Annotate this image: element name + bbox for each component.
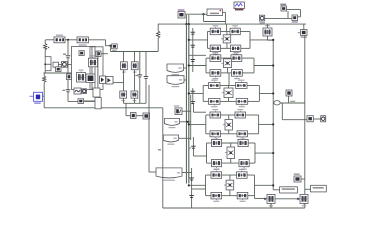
cell3 right vertical wire bbox=[258, 86, 260, 102]
output wire to far bus bbox=[273, 102, 305, 104]
wire G3 to SB1 bbox=[84, 100, 100, 102]
subsystem box T1 bbox=[72, 47, 96, 90]
wire mini block stub bbox=[101, 53, 108, 55]
current measure oval on bus bbox=[274, 101, 280, 105]
cell6 right vertical wire bbox=[254, 175, 256, 196]
source branch vertical wire upper bbox=[44, 40, 46, 44]
igbt Q53 bbox=[211, 160, 221, 170]
cell5 top row wire bbox=[207, 142, 212, 144]
cell4 right vertical wire bbox=[258, 115, 260, 134]
dc link wire group3 bbox=[191, 168, 193, 208]
cell2 left vertical wire bbox=[205, 58, 207, 73]
battery B5 plates bbox=[191, 146, 196, 148]
cell5 battery feed wire bbox=[192, 137, 194, 156]
igbt Q22 bbox=[231, 52, 242, 62]
feedback wire FB1 to FB2 bbox=[136, 115, 143, 117]
gain block G3 bbox=[78, 99, 84, 104]
product block P2 bbox=[77, 37, 88, 46]
cell2 top row wire bbox=[206, 57, 210, 59]
current measurement block CM1 (blue) bbox=[30, 92, 43, 104]
cell2 center source vertical bbox=[227, 57, 229, 60]
battery B1d plates bbox=[191, 60, 196, 62]
wire far bus to display WR1 bbox=[305, 188, 311, 190]
wire P1 to P2 bbox=[65, 39, 77, 41]
cell1 right tap wire bbox=[250, 39, 273, 41]
cell3 left tap wire bbox=[189, 92, 203, 94]
plus label C3a bbox=[135, 75, 137, 76]
igbt Q32 bbox=[236, 80, 248, 89]
display box B1 bbox=[207, 9, 223, 16]
feedback wire from rectifier bbox=[125, 103, 127, 115]
subsystem box T2 bbox=[90, 47, 103, 90]
wire QB1 to QB2 bbox=[275, 198, 300, 200]
dc source V4 bbox=[223, 120, 233, 131]
display block DS4 bbox=[163, 135, 178, 145]
igbt Q64 bbox=[237, 192, 248, 202]
igbt Q61 bbox=[211, 169, 222, 179]
wire TB5 right loop bbox=[287, 9, 301, 11]
outer right bus vertical bbox=[272, 40, 274, 190]
extra tap wire cell2 top bbox=[189, 54, 206, 56]
cell1 left tap wire bbox=[189, 39, 208, 41]
leg2 bottom wire bbox=[134, 98, 136, 103]
small block EX1 bbox=[67, 74, 72, 80]
cell4 right tap wire bbox=[259, 123, 274, 125]
wire B1 to bus bbox=[223, 11, 226, 13]
igbt Q63 bbox=[211, 192, 222, 202]
gain block G1 bbox=[112, 44, 118, 51]
display block DS5 bbox=[156, 168, 182, 181]
igbt Q44 bbox=[237, 131, 248, 140]
igbt Q12 bbox=[230, 25, 240, 35]
gate bus vertical A bbox=[185, 24, 187, 183]
igbt Q14 bbox=[231, 45, 241, 55]
white box SB2 below subsystem bbox=[95, 98, 101, 109]
sum block TB2 bbox=[260, 15, 265, 23]
dc link wire group1 bbox=[192, 28, 194, 72]
wire outer bus into display LB_a bbox=[273, 189, 279, 191]
leg1 mid wire bbox=[123, 70, 125, 91]
product block P1 (+ x -) bbox=[54, 35, 65, 43]
capacitor C2 plates bbox=[66, 90, 71, 92]
battery group2 corner to cell4 bbox=[193, 104, 195, 112]
wire bus to TB4 bbox=[303, 24, 305, 29]
QB1 bottom stub bbox=[270, 203, 272, 208]
diode D4 bbox=[131, 91, 138, 101]
feedback block FB1 bbox=[131, 113, 137, 119]
node junction at capacitor branch bbox=[67, 39, 69, 41]
cell4 center source vertical bbox=[228, 115, 230, 120]
cell6 left tap wire bbox=[189, 184, 206, 186]
capacitor C1 lower wire bbox=[67, 58, 69, 90]
diode block D_a bbox=[100, 76, 106, 84]
cell4 left tap wire bbox=[189, 123, 206, 125]
meter block M1 bbox=[307, 116, 313, 122]
diode block D_b bbox=[106, 77, 113, 85]
label dot near R1 bbox=[48, 47, 49, 48]
cell1 center source vertical bbox=[226, 31, 228, 34]
rectifier leg 1 upper wire bbox=[123, 52, 125, 62]
cell6 right tap wire bbox=[255, 184, 274, 186]
wire AC midpoint to rectifier bbox=[113, 82, 124, 84]
cell5 left vertical wire bbox=[206, 143, 208, 163]
display block DS2 bbox=[167, 76, 184, 88]
leg2 mid wire bbox=[134, 70, 136, 91]
display box LB_a bbox=[280, 187, 298, 193]
display block DS3 bbox=[164, 119, 179, 129]
igbt Q42 bbox=[235, 109, 246, 118]
wire bend down to gain G1 bbox=[105, 40, 107, 46]
wire DS1 to gate bus bbox=[184, 67, 187, 69]
scope block B2 with waveform bbox=[234, 2, 244, 10]
igbt Q23 bbox=[210, 70, 221, 80]
wire bus down to cell1 top bbox=[226, 24, 228, 31]
feedback block FB2 bbox=[143, 113, 150, 119]
cell6 bottom row wire bbox=[206, 195, 212, 197]
leg1 bottom wire bbox=[123, 98, 125, 103]
igbt Q43 bbox=[210, 131, 221, 140]
wire CM1 to return bus bbox=[43, 95, 45, 97]
main bus feed corner bbox=[157, 24, 159, 31]
display block DS1 bbox=[167, 64, 184, 75]
circle block V2 bbox=[82, 89, 87, 94]
wire down to rectifier rail bbox=[110, 46, 112, 52]
cell2 left tap wire bbox=[189, 65, 206, 67]
label on output wire bbox=[290, 101, 295, 102]
junction dots top bus bbox=[185, 23, 187, 25]
dc source V3 bbox=[222, 88, 233, 98]
wire M1 to M2 bbox=[313, 118, 320, 120]
cell1 left vertical wire bbox=[207, 31, 209, 48]
cell2 right vertical wire bbox=[253, 58, 255, 73]
left gate bus wire B bbox=[188, 15, 190, 184]
tiny label near DS4 bbox=[158, 149, 161, 150]
wire DS4 to gate bus bbox=[179, 137, 191, 139]
igbt Q54 bbox=[239, 160, 249, 170]
igbt Q24 bbox=[232, 70, 243, 80]
cell3 top row wire bbox=[203, 85, 208, 87]
wire RS1 stub bbox=[288, 96, 290, 103]
wire TM1 to V1 bbox=[58, 64, 61, 66]
dc source V5 bbox=[225, 147, 235, 159]
cell2 right tap wire bbox=[254, 65, 273, 67]
igbt Q_b bbox=[77, 70, 86, 83]
rectifier top rail bbox=[111, 51, 159, 53]
wire P2 output rightward bbox=[88, 39, 105, 41]
wire DS5 to battery line bbox=[182, 172, 192, 174]
inter-cell wire cell2 to cell3 bbox=[228, 73, 230, 86]
cell1 bottom row wire bbox=[208, 47, 211, 49]
battery B2a plates bbox=[191, 102, 196, 104]
cell3 right tap wire bbox=[259, 92, 273, 94]
igbt Q62 bbox=[237, 169, 248, 179]
cell5 right tap wire bbox=[255, 152, 273, 154]
igbt Q11 bbox=[210, 25, 220, 35]
battery B3b plates bbox=[189, 196, 194, 198]
series branch box B_rlc2 bbox=[45, 64, 51, 70]
far right vertical bus bbox=[304, 36, 306, 209]
dc mid tap wire group3 bbox=[192, 188, 206, 190]
left gate bus wire A bbox=[185, 15, 187, 184]
wire TB5 down bbox=[287, 11, 289, 18]
igbt Q13 bbox=[210, 45, 220, 55]
wire TB2 to TB3 bbox=[265, 17, 292, 19]
TB4 left tick bbox=[298, 32, 300, 33]
wire DB to far bus bbox=[301, 178, 305, 180]
cell4 top row wire bbox=[206, 114, 210, 116]
junction dot DS3 wire bbox=[186, 121, 188, 123]
terminal block TM1 bbox=[53, 62, 58, 67]
top horizontal bus bbox=[158, 23, 306, 25]
cell5 right vertical wire bbox=[254, 143, 256, 163]
dc source V1 bbox=[221, 35, 231, 43]
junction dot at branch boxes bbox=[44, 63, 46, 65]
plus label B5 bbox=[189, 147, 191, 148]
wire R3 to rectifier rail bbox=[157, 38, 159, 52]
resistor R1 zigzag bbox=[44, 44, 47, 50]
inner vertical wire W_t1 bbox=[91, 47, 93, 90]
diode D1 bbox=[121, 62, 128, 73]
wire input to product block bbox=[46, 39, 55, 41]
dc link capacitor wire B upper bbox=[145, 52, 147, 77]
subsystem small box SB1 bbox=[93, 88, 100, 97]
gain block G2 bbox=[56, 67, 62, 72]
dc link capacitor wire A upper bbox=[139, 52, 141, 75]
voltage source circle V1 bbox=[62, 62, 68, 68]
cell4 bottom row wire bbox=[206, 133, 210, 135]
cell1 right vertical wire bbox=[249, 31, 251, 48]
cell6 center source vertical bbox=[229, 175, 231, 180]
gate bus vertical B bbox=[188, 24, 190, 183]
wire down to meter blocks bbox=[281, 103, 283, 120]
dc link capacitor wire A lower bbox=[139, 78, 141, 104]
dc source V2 bbox=[221, 59, 231, 68]
dc link capacitor wire B lower bbox=[145, 79, 147, 103]
series branch box B_rlc1 bbox=[45, 57, 51, 65]
wire bus into QS1 bbox=[267, 24, 269, 28]
resistor R3 zigzag bbox=[157, 31, 160, 38]
igbt QB2 bbox=[300, 194, 308, 206]
block PB2 bbox=[74, 88, 81, 94]
third gate bus vertical segment bbox=[190, 95, 192, 140]
capacitor C3b bbox=[144, 77, 149, 79]
cell6 top row wire bbox=[206, 174, 212, 176]
display box WR1 bbox=[311, 185, 327, 192]
capacitor C1 plates bbox=[66, 56, 71, 58]
wire DS2 to gate bus bbox=[184, 79, 186, 81]
battery B1a plates bbox=[191, 32, 196, 34]
cell4 left vertical wire bbox=[205, 115, 207, 134]
junction dot on TB1 wire bbox=[202, 13, 204, 15]
battery B3a plates bbox=[189, 178, 194, 180]
scope mini block SC2 bbox=[79, 51, 84, 56]
pwm generator block PWM1 bbox=[174, 105, 182, 114]
corner wire to switch QB1 bbox=[254, 196, 256, 199]
igbt Q51 bbox=[211, 136, 221, 146]
plus label C1 bbox=[63, 54, 66, 55]
cell3 center source vertical bbox=[228, 86, 230, 89]
sensor block RS1 bbox=[286, 90, 292, 96]
wire R2 down to current measure bbox=[43, 82, 45, 96]
igbt Q21 bbox=[210, 52, 221, 62]
cell5 bottom row wire bbox=[207, 162, 212, 164]
wire loop below B1 bbox=[203, 14, 205, 21]
igbt Q41 bbox=[210, 109, 221, 118]
dc source V6 bbox=[224, 180, 234, 190]
measurement block TB4 bbox=[301, 30, 308, 38]
wire QS1 to right bus bbox=[267, 36, 269, 40]
igbt Q31 bbox=[209, 80, 221, 89]
return bus wire to load box bbox=[44, 107, 163, 109]
junction dot before G1 bbox=[109, 45, 111, 47]
rectifier bottom rail bbox=[124, 102, 147, 104]
load return vertical wire bbox=[162, 108, 164, 208]
lower branch wire to resistor R2 bbox=[43, 72, 71, 74]
meter block M2 bbox=[321, 116, 326, 122]
bottom return bus bbox=[163, 207, 305, 209]
gain block TB3 bbox=[292, 15, 298, 23]
plus sign label C2 bbox=[63, 90, 66, 91]
wire below branch boxes bbox=[44, 71, 46, 73]
inner vertical wire W_t2 bbox=[97, 51, 99, 101]
pulse generator block TB1 bbox=[178, 9, 185, 18]
igbt Q34 bbox=[236, 99, 248, 108]
cell2 bottom row wire bbox=[206, 72, 210, 74]
resistor R2 zigzag bbox=[43, 76, 46, 82]
wire from rectifier dc to DS5 bbox=[148, 85, 150, 172]
wire TB1 to scope box B1 bbox=[185, 13, 207, 15]
capacitor branch wire bbox=[67, 40, 69, 55]
diode D3 bbox=[120, 91, 127, 101]
cell3 left vertical wire bbox=[202, 86, 204, 102]
capacitor C3a bbox=[138, 75, 143, 77]
igbt QS1 bbox=[263, 25, 272, 36]
capacitor branch bottom wire bbox=[67, 92, 69, 102]
igbt Q_c dark bbox=[86, 74, 95, 83]
QB2 gate mark bbox=[297, 198, 299, 200]
cell6 left vertical wire bbox=[205, 175, 207, 196]
voltage measurement block TB5 bbox=[280, 4, 286, 11]
rectifier leg 2 upper wire bbox=[134, 52, 136, 62]
igbt QB1 bbox=[267, 194, 275, 206]
igbt Q52 bbox=[238, 136, 248, 146]
wire V1 to subsystem box bbox=[67, 64, 71, 66]
cell5 center source vertical bbox=[230, 143, 232, 147]
battery B2b plates bbox=[191, 91, 196, 93]
cell1 top row wire bbox=[208, 30, 211, 32]
dc link wire group2 bbox=[192, 88, 194, 104]
QB1 gate mark bbox=[264, 198, 266, 200]
wire DS3 to gate bus bbox=[180, 121, 191, 123]
cell3 bottom row wire bbox=[203, 100, 208, 102]
diode D2 bbox=[131, 62, 138, 73]
sensor block DB bottom right bbox=[294, 173, 301, 182]
igbt Q_a bbox=[89, 55, 98, 67]
igbt Q33 bbox=[209, 99, 221, 108]
wire PWM1 to gate bus bbox=[182, 110, 191, 112]
mini block near rail bbox=[96, 51, 101, 57]
wire R1 to RLC branch boxes bbox=[44, 50, 46, 57]
battery B1c plates bbox=[191, 45, 196, 47]
